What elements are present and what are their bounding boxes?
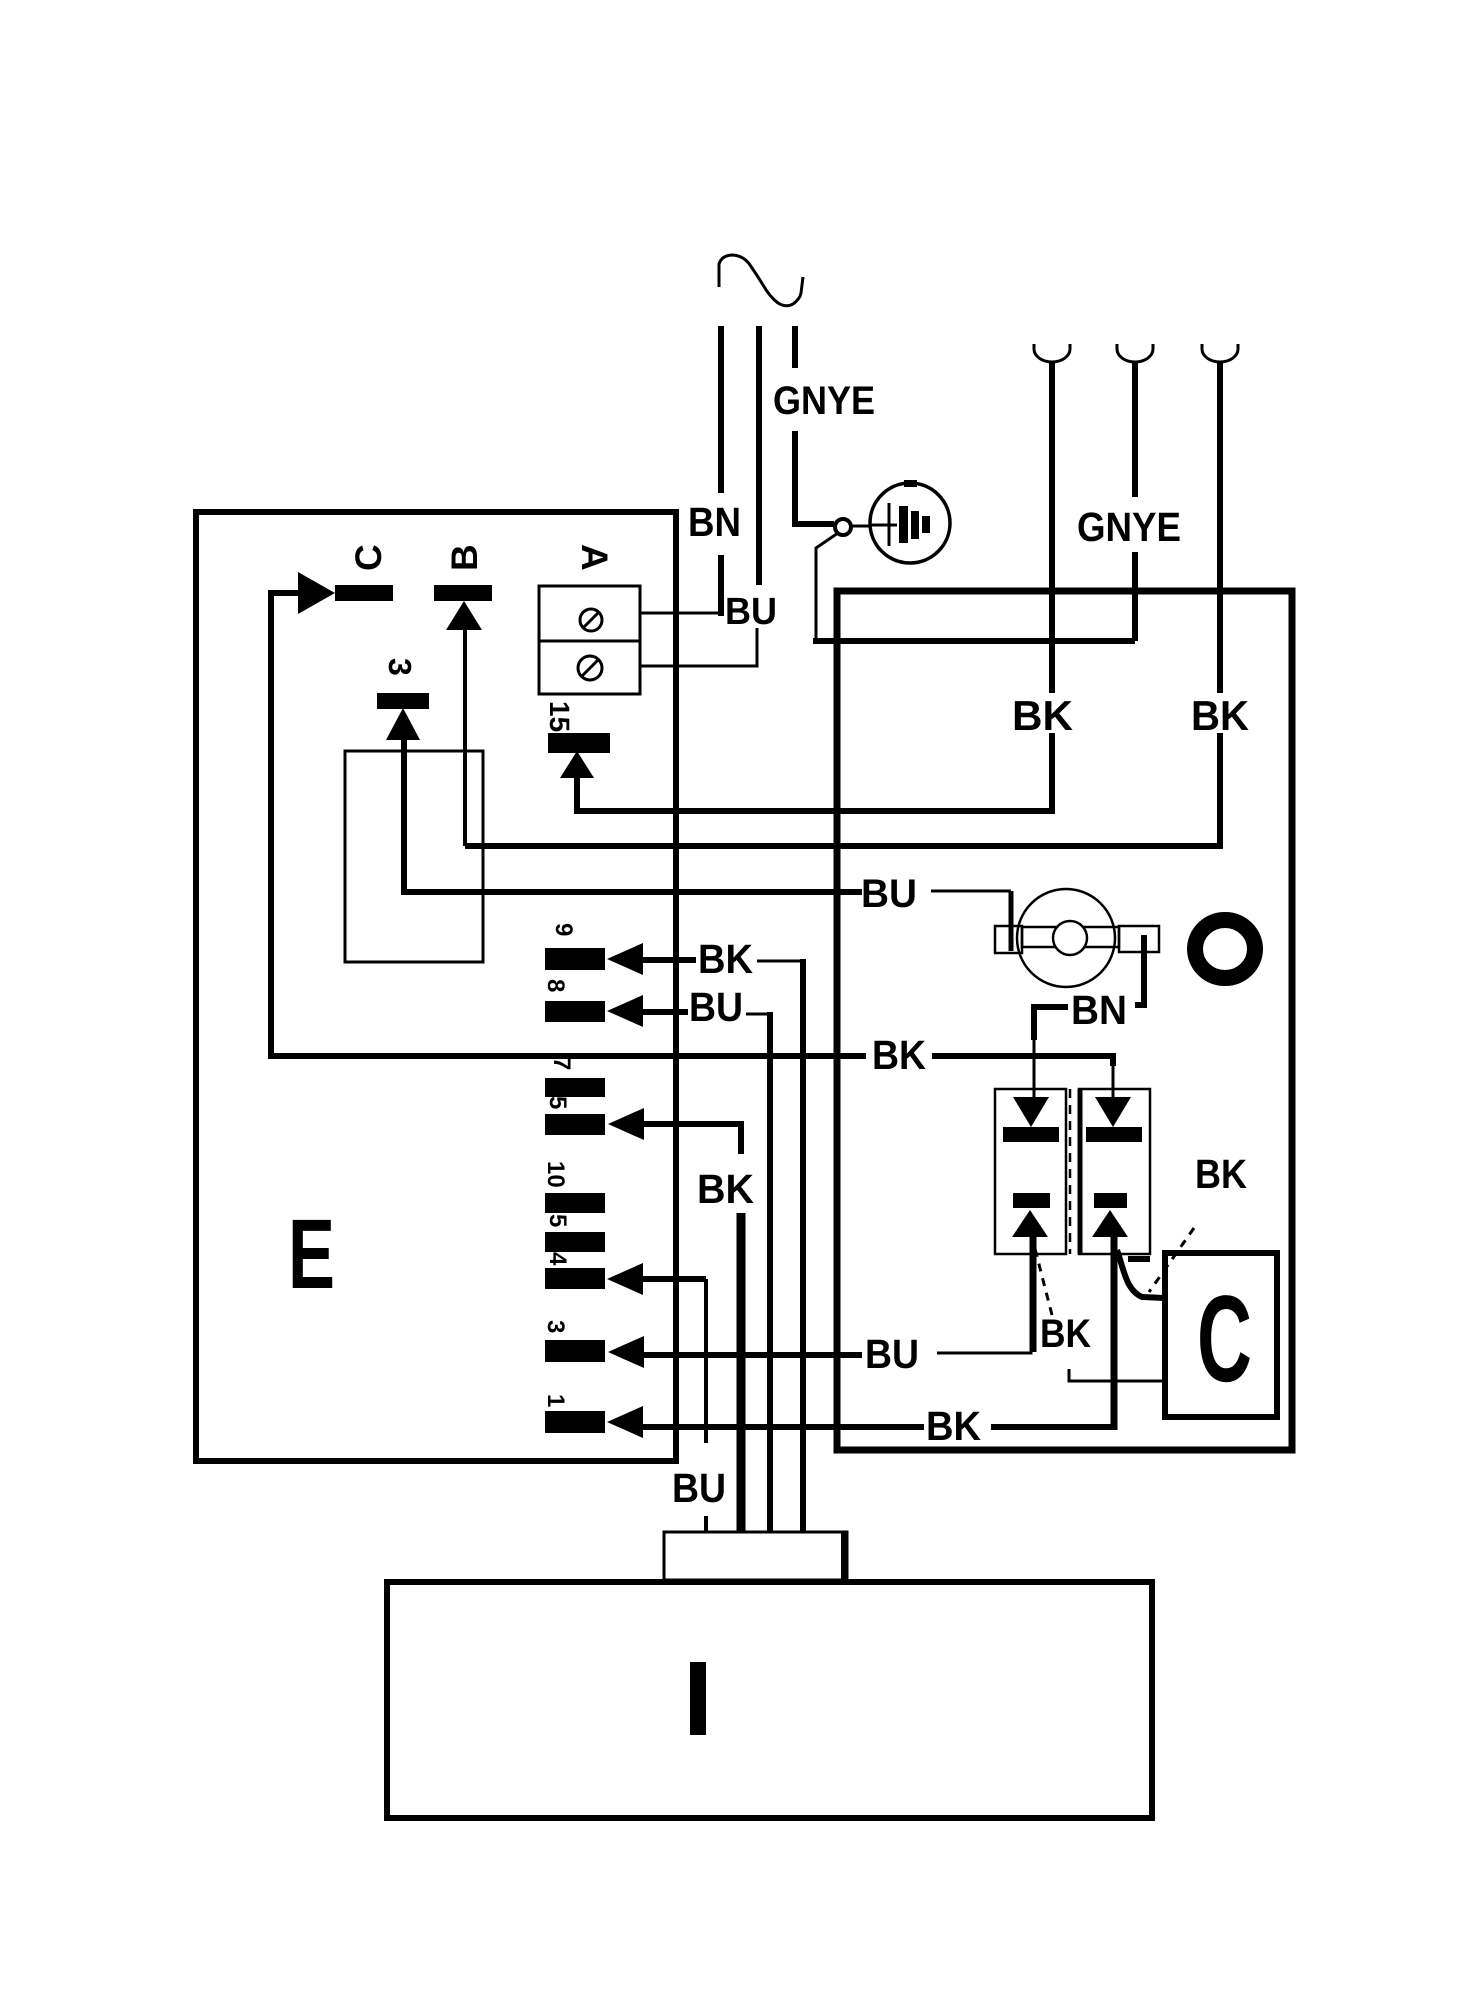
connector block right edge xyxy=(841,1532,847,1580)
diode box2 bottom arrow xyxy=(1092,1210,1128,1237)
svg-text:BK: BK xyxy=(1040,1312,1091,1356)
ground symbol internals xyxy=(871,524,897,527)
motor armature bar xyxy=(1022,927,1119,947)
wire terminal 4 lead and drop xyxy=(641,1276,706,1282)
wire capacitor lead with stub xyxy=(1069,1369,1165,1381)
bolt circle (ground connection point) xyxy=(835,519,851,535)
svg-text:BN: BN xyxy=(688,499,741,545)
svg-text:C: C xyxy=(348,544,389,571)
wire BK bus right part xyxy=(932,1053,1113,1059)
svg-text:BU: BU xyxy=(672,1465,726,1511)
svg-text:GNYE: GNYE xyxy=(1077,504,1181,550)
wire link A box pin1 to BN xyxy=(640,612,723,615)
diode box1 top arrow xyxy=(1013,1097,1049,1127)
diode box1 top bar xyxy=(1003,1127,1059,1142)
terminal 3 arrow xyxy=(386,708,420,740)
wire bolt to chassis bus (drop) xyxy=(816,533,838,641)
screw symbol A pin2 xyxy=(578,656,602,680)
mains supply squiggle xyxy=(719,255,803,306)
terminal 8 bar xyxy=(545,1001,605,1022)
wire BU (supply) upper segment xyxy=(756,326,762,585)
wire BN (supply) lower segment xyxy=(718,555,724,616)
diode box2 outline xyxy=(1079,1089,1150,1254)
svg-text:C: C xyxy=(1197,1271,1252,1408)
stub right of diode box2 xyxy=(1128,1256,1150,1262)
cable clamp cup wire 1 xyxy=(1034,344,1070,362)
svg-text:10: 10 xyxy=(542,1161,569,1188)
module loop rectangle xyxy=(345,751,483,962)
svg-text:15: 15 xyxy=(544,701,575,732)
wire terminal 9 lead xyxy=(641,957,696,963)
svg-text:BK: BK xyxy=(1195,1151,1247,1197)
terminal 9 arrow xyxy=(607,943,643,975)
wire bolt to ground symbol xyxy=(852,525,871,528)
wire to terminal C (from BK bus) xyxy=(271,593,299,1056)
wire terminal 3b lead (BU to motor) xyxy=(642,1352,862,1358)
cable wire 2 (GNYE) lower, to ground bus xyxy=(1132,552,1138,641)
wire terminal 4 stub to connector xyxy=(704,1516,708,1532)
svg-text:GNYE: GNYE xyxy=(773,379,875,423)
capacitor box C outline xyxy=(1165,1253,1277,1417)
wire BU into motor xyxy=(931,890,1011,893)
terminal 5b bar xyxy=(545,1232,605,1252)
svg-text:8: 8 xyxy=(542,979,569,992)
wire drop into diode box2 xyxy=(1110,1053,1116,1066)
terminal 3 bar xyxy=(377,693,429,709)
diode box2 top arrow xyxy=(1095,1097,1131,1127)
terminal B arrow xyxy=(446,601,482,630)
terminal 5 bar xyxy=(545,1114,605,1135)
svg-text:E: E xyxy=(288,1198,335,1309)
diode box1 bottom bar xyxy=(1013,1193,1050,1208)
motor circle xyxy=(1017,889,1115,987)
dashed divider between diode boxes xyxy=(1069,1089,1072,1254)
terminal 15 arrow xyxy=(560,751,594,778)
wire diode box2 stem xyxy=(1111,1236,1118,1430)
wire BN (supply) upper segment xyxy=(718,326,724,493)
box E outline xyxy=(196,512,676,1461)
cable wire 3 (BK) upper xyxy=(1217,361,1223,693)
cable wire 2 (GNYE) upper xyxy=(1132,361,1138,497)
cable wire 1 (BK) upper xyxy=(1049,361,1055,693)
svg-text:A: A xyxy=(574,544,615,571)
wire BU to diode box1 stem xyxy=(937,1237,1031,1353)
wire terminal 8 lead xyxy=(641,1009,688,1015)
diode box2 bottom bar xyxy=(1094,1193,1127,1208)
wire terminal 5 lead and corner xyxy=(642,1124,741,1154)
motor shaft circle xyxy=(1053,921,1087,955)
wire terminal B stem xyxy=(463,628,467,846)
wire terminal 5 to connector xyxy=(737,1213,746,1532)
svg-text:7: 7 xyxy=(548,1057,575,1070)
terminal 8 arrow xyxy=(607,995,643,1027)
svg-text:BK: BK xyxy=(1191,692,1249,739)
connector block outline xyxy=(664,1532,847,1580)
label O (box O) xyxy=(1195,920,1255,978)
terminal block A outline xyxy=(539,586,640,694)
dashed leader BK to capacitor wire xyxy=(1149,1228,1194,1292)
motor right tab xyxy=(1119,926,1159,952)
terminal 10 bar xyxy=(545,1193,605,1213)
svg-text:1: 1 xyxy=(542,1394,569,1407)
terminal 4 bar xyxy=(545,1268,605,1289)
wire GNYE (supply, dashed) xyxy=(792,326,798,368)
terminal 15 bar xyxy=(548,733,610,753)
terminal 4 arrow xyxy=(607,1263,643,1295)
cable clamp cup wire 3 xyxy=(1202,344,1238,362)
cable wire 3 (BK) lower, to terminal B line xyxy=(465,733,1220,846)
wire terminal 3 stem to BU line xyxy=(404,738,862,892)
svg-text:BK: BK xyxy=(872,1032,926,1078)
wire BK bus (C terminal to diode box2) left part xyxy=(268,1053,866,1059)
terminal C bar xyxy=(335,585,393,601)
box I outline xyxy=(387,1582,1152,1818)
wire terminal 15 stem xyxy=(574,776,580,814)
label I (box I) xyxy=(690,1662,706,1735)
wire BU (supply) lower segment xyxy=(640,628,757,666)
svg-text:BK: BK xyxy=(926,1403,981,1449)
svg-text:BU: BU xyxy=(861,872,917,916)
svg-text:BK: BK xyxy=(698,936,753,982)
terminal 9 bar xyxy=(545,948,605,970)
cable clamp cup wire 2 xyxy=(1117,344,1153,362)
wire terminal 9 to connector xyxy=(757,960,803,963)
dashed leader BK to diode box1 stem xyxy=(1033,1241,1052,1315)
terminal 3b bar xyxy=(545,1340,605,1362)
diode box1 outline xyxy=(995,1089,1066,1254)
box O outline xyxy=(837,591,1292,1450)
motor left tab xyxy=(995,926,1022,953)
terminal 1 bar xyxy=(545,1411,605,1433)
svg-text:4: 4 xyxy=(544,1252,571,1266)
svg-text:BU: BU xyxy=(865,1331,919,1377)
svg-text:5: 5 xyxy=(544,1096,571,1109)
screw symbol A pin1 xyxy=(580,609,602,631)
svg-text:BK: BK xyxy=(697,1166,754,1212)
svg-text:B: B xyxy=(444,544,485,571)
terminal 5 arrow xyxy=(608,1108,644,1140)
wire terminal 8 to connector xyxy=(746,1013,770,1016)
svg-text:5: 5 xyxy=(544,1214,571,1227)
terminal C arrow xyxy=(298,572,335,614)
terminal 1 arrow xyxy=(607,1406,643,1438)
ground bus wire xyxy=(813,638,1135,644)
ground symbol circle xyxy=(870,483,950,563)
wire diode box2 to capacitor (curve) xyxy=(1117,1250,1164,1298)
wire motor right tab down xyxy=(1135,935,1144,1005)
svg-text:BU: BU xyxy=(689,984,743,1030)
terminal 7 bar xyxy=(545,1078,605,1097)
terminal B bar xyxy=(434,585,492,601)
wire BN corner into diode box1 xyxy=(1034,1007,1068,1040)
diode box1 bottom arrow xyxy=(1012,1210,1048,1237)
wire terminal 1 lead (BK) xyxy=(641,1424,924,1430)
svg-text:3: 3 xyxy=(382,658,418,676)
svg-text:BK: BK xyxy=(1012,692,1073,739)
svg-text:BN: BN xyxy=(1071,987,1127,1033)
svg-text:9: 9 xyxy=(550,923,577,936)
terminal 3b arrow xyxy=(608,1336,644,1368)
svg-text:BU: BU xyxy=(725,591,777,633)
cable wire 1 (BK) lower, to terminal 15 line xyxy=(577,733,1052,811)
wire BK to diode box2 stem xyxy=(991,1424,1116,1430)
wire diode box1 stem xyxy=(1030,1236,1037,1352)
diode box2 top bar xyxy=(1086,1127,1142,1142)
svg-text:3: 3 xyxy=(542,1320,569,1333)
